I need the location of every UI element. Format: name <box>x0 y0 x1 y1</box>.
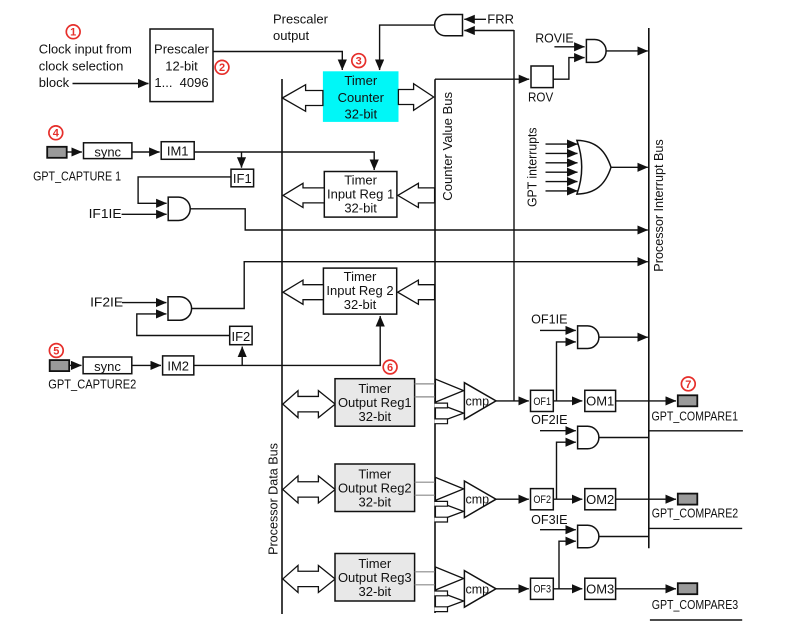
svg-text:32-bit: 32-bit <box>344 297 377 312</box>
svg-text:1: 1 <box>70 27 76 39</box>
svg-text:GPT_CAPTURE 1: GPT_CAPTURE 1 <box>33 169 121 184</box>
svg-text:Output Reg3: Output Reg3 <box>338 570 412 585</box>
svg-text:Input Reg 2: Input Reg 2 <box>326 283 393 298</box>
svg-text:OF1IE: OF1IE <box>531 311 568 326</box>
svg-text:Clock input from: Clock input from <box>39 42 132 57</box>
svg-text:IF1: IF1 <box>233 171 252 186</box>
svg-text:32-bit: 32-bit <box>344 200 377 215</box>
svg-text:5: 5 <box>53 345 59 357</box>
svg-text:output: output <box>273 28 310 43</box>
svg-text:OM3: OM3 <box>586 581 614 596</box>
svg-text:7: 7 <box>685 379 691 391</box>
svg-text:4: 4 <box>53 128 60 140</box>
svg-text:1... 4096: 1... 4096 <box>154 75 208 90</box>
svg-text:Input Reg 1: Input Reg 1 <box>327 186 394 201</box>
svg-text:cmp: cmp <box>466 493 490 507</box>
svg-text:ROVIE: ROVIE <box>535 30 574 45</box>
svg-text:OF1: OF1 <box>533 396 551 408</box>
svg-text:Counter: Counter <box>338 90 385 105</box>
svg-text:OF2IE: OF2IE <box>531 412 568 427</box>
svg-text:OM1: OM1 <box>586 394 614 409</box>
svg-text:Prescaler: Prescaler <box>273 12 329 27</box>
svg-text:32-bit: 32-bit <box>359 409 392 424</box>
svg-text:Prescaler: Prescaler <box>154 42 210 57</box>
svg-text:cmp: cmp <box>466 582 490 596</box>
svg-text:ROV: ROV <box>528 89 553 104</box>
svg-text:GPT_CAPTURE2: GPT_CAPTURE2 <box>48 377 136 392</box>
svg-text:FRR: FRR <box>487 12 514 27</box>
svg-text:cmp: cmp <box>466 394 490 408</box>
svg-text:OF3: OF3 <box>533 584 551 596</box>
svg-text:Timer: Timer <box>358 556 391 571</box>
svg-text:GPT interrupts: GPT interrupts <box>525 127 540 207</box>
svg-text:OM2: OM2 <box>586 492 614 507</box>
svg-text:Processor Data Bus: Processor Data Bus <box>266 443 281 555</box>
svg-text:12-bit: 12-bit <box>165 59 198 74</box>
svg-text:IF2: IF2 <box>232 329 251 344</box>
svg-text:block: block <box>39 75 70 90</box>
svg-text:GPT_COMPARE2: GPT_COMPARE2 <box>652 506 739 521</box>
svg-text:Output Reg2: Output Reg2 <box>338 481 412 496</box>
svg-text:32-bit: 32-bit <box>359 584 392 599</box>
svg-text:Timer: Timer <box>344 269 377 284</box>
svg-text:3: 3 <box>356 56 362 68</box>
svg-text:sync: sync <box>94 359 121 374</box>
svg-text:IM1: IM1 <box>167 144 189 159</box>
svg-text:OF3IE: OF3IE <box>531 512 568 527</box>
svg-text:GPT_COMPARE3: GPT_COMPARE3 <box>652 597 739 612</box>
svg-text:IF2IE: IF2IE <box>90 294 123 309</box>
svg-text:Processor Interrupt Bus: Processor Interrupt Bus <box>651 139 666 272</box>
svg-text:IF1IE: IF1IE <box>89 206 122 221</box>
svg-text:Output Reg1: Output Reg1 <box>338 395 412 410</box>
svg-text:Timer: Timer <box>344 172 377 187</box>
svg-text:GPT_COMPARE1: GPT_COMPARE1 <box>652 408 739 423</box>
svg-text:sync: sync <box>94 144 121 159</box>
svg-text:Timer: Timer <box>358 467 391 482</box>
svg-text:IM2: IM2 <box>167 359 189 374</box>
svg-text:Counter Value Bus: Counter Value Bus <box>440 91 455 200</box>
svg-text:Timer: Timer <box>358 381 391 396</box>
svg-text:clock selection: clock selection <box>39 59 124 74</box>
svg-text:Timer: Timer <box>344 73 377 88</box>
svg-text:2: 2 <box>219 62 225 74</box>
svg-text:OF2: OF2 <box>533 494 551 506</box>
svg-text:6: 6 <box>387 362 393 374</box>
svg-text:32-bit: 32-bit <box>345 107 378 122</box>
svg-text:32-bit: 32-bit <box>359 495 392 510</box>
